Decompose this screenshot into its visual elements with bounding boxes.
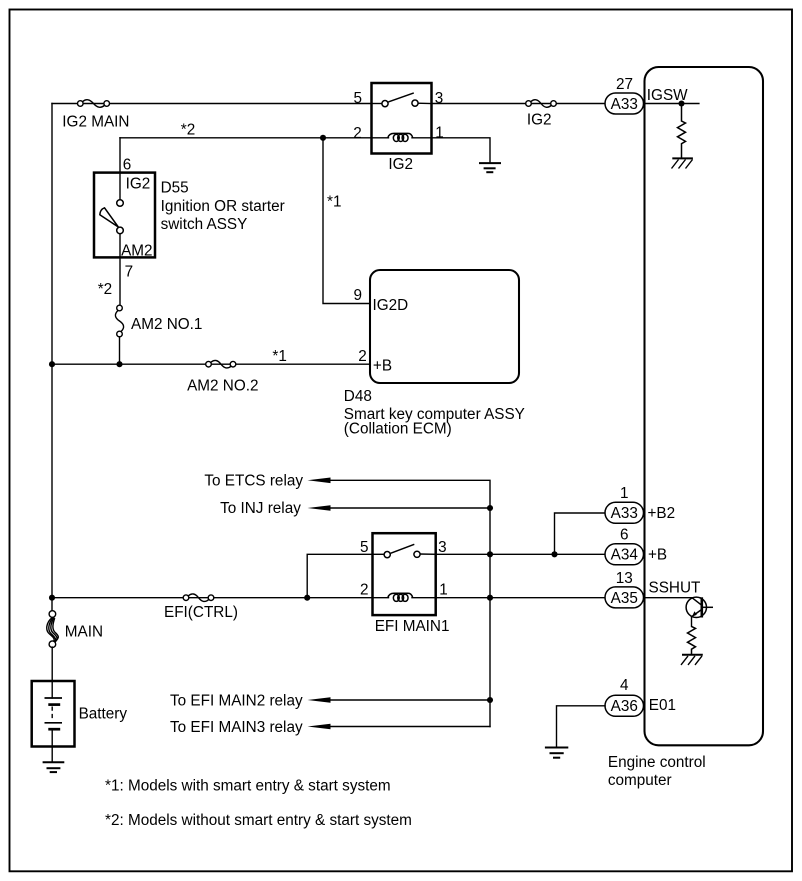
relay EFI MAIN1 coil bbox=[388, 593, 413, 601]
connector A36 (E01) bbox=[605, 695, 644, 716]
svg-text:AM2 NO.1: AM2 NO.1 bbox=[131, 316, 202, 333]
svg-text:IG2: IG2 bbox=[527, 112, 552, 129]
fusible link MAIN bbox=[47, 611, 59, 648]
relay EFI MAIN1 box bbox=[373, 533, 436, 615]
junction *1/*2 node bbox=[320, 135, 326, 141]
svg-text:EFI(CTRL): EFI(CTRL) bbox=[164, 604, 238, 621]
wire switch AM2 to fuse AM2 NO.1 bbox=[119, 234, 121, 306]
svg-text:AM2 NO.2: AM2 NO.2 bbox=[187, 377, 258, 394]
wire *1 vertical to D48 pin 9 bbox=[323, 138, 370, 304]
resistor (IGSW pull-down) bbox=[678, 104, 686, 159]
svg-text:EFI MAIN1: EFI MAIN1 bbox=[375, 618, 450, 635]
svg-text:A36: A36 bbox=[611, 698, 638, 715]
svg-text:2: 2 bbox=[360, 582, 369, 599]
wire To INJ relay bbox=[328, 507, 490, 509]
svg-text:6: 6 bbox=[620, 526, 629, 543]
svg-text:To ETCS relay: To ETCS relay bbox=[204, 472, 303, 489]
switch terminal circles bbox=[117, 200, 124, 207]
wire battery to ground bbox=[51, 729, 53, 762]
fuse IG2 bbox=[526, 100, 557, 108]
svg-text:2: 2 bbox=[353, 125, 362, 142]
svg-text:3: 3 bbox=[435, 90, 444, 107]
relay EFI MAIN1 contact lever bbox=[391, 544, 415, 553]
wire To EFI MAIN2 relay bbox=[328, 699, 490, 701]
wire transistor emitter bbox=[691, 617, 693, 627]
wire +B2 branch to A33 bbox=[555, 513, 606, 554]
ignition switch D55 box bbox=[94, 173, 155, 258]
svg-text:2: 2 bbox=[358, 348, 367, 365]
switch lever bbox=[100, 208, 119, 227]
svg-text:Ignition OR starter: Ignition OR starter bbox=[161, 198, 285, 215]
arrow To EFI MAIN2 relay bbox=[308, 697, 331, 703]
svg-text:A34: A34 bbox=[611, 547, 639, 564]
ground (SSHUT, chassis) bbox=[681, 655, 703, 665]
junction AM2 NO.1/NO.2 bbox=[116, 361, 122, 367]
wire relay IG2 pin 1 to ground bbox=[432, 138, 491, 163]
svg-text:*2: *2 bbox=[98, 281, 112, 298]
label D48 Smart key computer ASSY (Collation ECM) bbox=[344, 388, 525, 438]
junction IGSW resistor bbox=[678, 100, 684, 106]
svg-text:6: 6 bbox=[123, 157, 132, 174]
junction pin1/vertical bbox=[487, 595, 493, 601]
svg-text:To EFI MAIN3 relay: To EFI MAIN3 relay bbox=[170, 719, 303, 736]
wire relay IG2 coil stubs bbox=[372, 137, 389, 139]
wire AM2 NO.2 row bbox=[52, 363, 370, 365]
arrow To ETCS relay bbox=[308, 478, 331, 484]
smart key computer D48 box bbox=[370, 270, 519, 383]
wire EFI(CTRL) row bbox=[52, 597, 372, 599]
svg-text:+B2: +B2 bbox=[648, 505, 676, 522]
connector A34 (+B) bbox=[605, 544, 644, 565]
relay IG2 coil bbox=[388, 133, 413, 141]
wire IGSW internal bbox=[645, 103, 699, 105]
wire SSHUT internal bbox=[645, 597, 693, 599]
battery box bbox=[32, 681, 75, 747]
wire EFI MAIN1 pin 3 to A34 bbox=[437, 553, 606, 555]
wire MAIN link to battery bbox=[51, 647, 53, 698]
transistor (SSHUT driver) bbox=[686, 597, 713, 617]
svg-text:9: 9 bbox=[354, 287, 363, 304]
ground (battery) bbox=[43, 762, 65, 772]
svg-text:+B: +B bbox=[373, 357, 392, 374]
wire relay EFI MAIN1 contact stubs bbox=[372, 553, 384, 555]
svg-text:5: 5 bbox=[360, 539, 369, 556]
fuse AM2 NO.2 bbox=[206, 360, 236, 368]
wire E01 to ground bbox=[557, 706, 606, 748]
battery cell plates bbox=[45, 698, 63, 729]
fuse IG2 MAIN bbox=[78, 100, 110, 108]
svg-text:MAIN: MAIN bbox=[65, 624, 103, 641]
fuse AM2 NO.1 bbox=[115, 305, 123, 337]
svg-text:1: 1 bbox=[435, 124, 444, 141]
svg-text:IG2 MAIN: IG2 MAIN bbox=[62, 114, 129, 131]
svg-text:computer: computer bbox=[608, 772, 672, 789]
svg-text:IG2D: IG2D bbox=[373, 297, 409, 314]
wire top row IG2 MAIN bus to relay IG2 pin 5 bbox=[52, 103, 372, 105]
wire branch to EFI MAIN1 pin 5 bbox=[307, 554, 372, 597]
ECU box bbox=[645, 67, 764, 745]
relay IG2 box bbox=[372, 83, 432, 154]
wire relay IG2 contact stubs bbox=[372, 103, 383, 105]
svg-text:5: 5 bbox=[354, 90, 363, 107]
junction branch bbox=[304, 595, 310, 601]
ground (IG2 relay coil) bbox=[479, 163, 501, 172]
label D55 Ignition OR starter switch ASSY bbox=[161, 180, 285, 234]
wire *2 row to relay IG2 pin 2 bbox=[120, 137, 372, 139]
wire drop to ignition switch pin 6 bbox=[119, 138, 121, 200]
wire To ETCS relay bbox=[328, 480, 490, 726]
relay EFI MAIN1 contact circles bbox=[384, 552, 390, 558]
svg-text:3: 3 bbox=[438, 539, 447, 556]
svg-text:Battery: Battery bbox=[79, 706, 128, 723]
wire relay IG2 pin 3 to connector A33 bbox=[432, 103, 606, 105]
svg-text:1: 1 bbox=[439, 582, 448, 599]
svg-text:E01: E01 bbox=[649, 697, 676, 714]
resistor (SSHUT emitter) bbox=[688, 626, 696, 654]
svg-text:*2: *2 bbox=[181, 122, 195, 139]
arrow To INJ relay bbox=[308, 505, 331, 511]
ground (IGSW, chassis) bbox=[672, 158, 693, 168]
junction pin3/+B2 branch bbox=[551, 551, 557, 557]
fuse EFI(CTRL) bbox=[183, 594, 214, 602]
svg-text:Engine control: Engine control bbox=[608, 754, 706, 771]
svg-text:switch ASSY: switch ASSY bbox=[161, 216, 248, 233]
svg-text:SSHUT: SSHUT bbox=[649, 580, 701, 597]
svg-text:(Collation ECM): (Collation ECM) bbox=[344, 421, 452, 438]
junction MAIN2/vertical bbox=[487, 697, 493, 703]
svg-text:4: 4 bbox=[620, 677, 629, 694]
label Engine control computer bbox=[608, 754, 706, 789]
svg-text:A35: A35 bbox=[611, 590, 638, 607]
arrow To EFI MAIN3 relay bbox=[308, 724, 331, 730]
svg-text:7: 7 bbox=[125, 264, 134, 281]
svg-text:13: 13 bbox=[616, 570, 633, 587]
svg-text:*2: Models without smart entry: *2: Models without smart entry & start s… bbox=[105, 812, 412, 829]
svg-text:+B: +B bbox=[648, 547, 667, 564]
connector A35 (SSHUT) bbox=[605, 587, 644, 608]
junction bus/AM2 NO.2 bbox=[49, 361, 55, 367]
wire EFI MAIN1 pin 1 to A35 bbox=[437, 597, 606, 599]
svg-text:A33: A33 bbox=[611, 96, 638, 113]
wire left battery bus vertical bbox=[51, 104, 53, 612]
svg-text:*1: *1 bbox=[327, 194, 341, 211]
wire fuse AM2 NO.1 to AM2 NO.2 row bbox=[119, 337, 121, 364]
junction pin3/vertical bbox=[487, 551, 493, 557]
svg-text:*1: *1 bbox=[272, 348, 286, 365]
svg-text:1: 1 bbox=[620, 485, 629, 502]
junction bus/EFI(CTRL) bbox=[49, 595, 55, 601]
relay IG2 contact lever bbox=[388, 93, 414, 102]
svg-text:27: 27 bbox=[616, 76, 633, 93]
svg-text:*1: Models with smart entry &: *1: Models with smart entry & start syst… bbox=[105, 778, 391, 795]
svg-text:D48: D48 bbox=[344, 388, 372, 405]
wire relay EFI MAIN1 coil stubs bbox=[372, 597, 388, 599]
relay IG2 contact circles bbox=[382, 101, 388, 107]
svg-text:A33: A33 bbox=[611, 505, 638, 522]
connector A33 (IGSW) bbox=[605, 93, 644, 114]
connector A33 (+B2) bbox=[605, 502, 644, 523]
svg-text:D55: D55 bbox=[161, 180, 189, 197]
svg-text:IG2: IG2 bbox=[388, 156, 413, 173]
junction INJ/vertical bbox=[487, 505, 493, 511]
svg-text:AM2: AM2 bbox=[121, 243, 152, 260]
svg-text:To INJ relay: To INJ relay bbox=[220, 500, 301, 517]
ground (E01) bbox=[545, 748, 568, 758]
svg-text:To EFI MAIN2 relay: To EFI MAIN2 relay bbox=[170, 693, 303, 710]
wire To EFI MAIN3 relay bbox=[328, 726, 490, 728]
svg-text:IG2: IG2 bbox=[126, 175, 151, 192]
